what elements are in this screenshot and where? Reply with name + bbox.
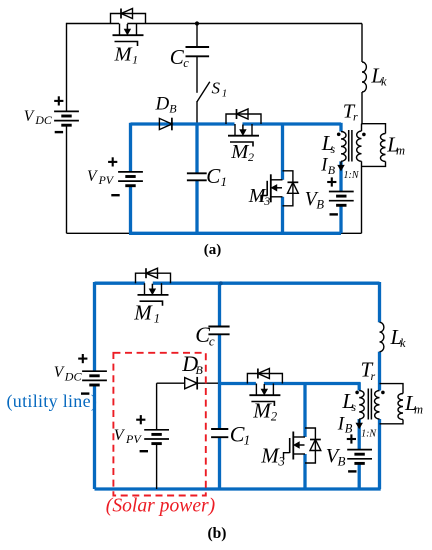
svg-text:1:N: 1:N <box>344 170 360 181</box>
svg-text:1: 1 <box>132 53 138 67</box>
svg-text:k: k <box>381 75 387 89</box>
svg-text:B: B <box>345 422 353 436</box>
svg-text:k: k <box>400 336 406 350</box>
svg-text:PV: PV <box>98 173 115 187</box>
svg-text:C: C <box>206 164 221 188</box>
svg-text:1: 1 <box>221 174 228 189</box>
svg-text:3: 3 <box>277 454 285 469</box>
svg-text:c: c <box>183 56 189 70</box>
svg-text:(Solar power): (Solar power) <box>106 496 215 517</box>
svg-text:B: B <box>196 363 204 377</box>
svg-text:1: 1 <box>154 312 160 326</box>
svg-text:2: 2 <box>248 150 254 164</box>
svg-text:m: m <box>414 402 423 416</box>
svg-text:M: M <box>114 43 134 65</box>
svg-text:M: M <box>260 444 280 468</box>
svg-text:(a): (a) <box>204 242 222 258</box>
svg-text:PV: PV <box>125 432 142 446</box>
svg-text:s: s <box>351 400 356 414</box>
svg-text:1: 1 <box>244 433 251 448</box>
svg-text:2: 2 <box>271 410 277 424</box>
svg-text:(utility line): (utility line) <box>7 391 98 412</box>
svg-text:(b): (b) <box>208 525 227 542</box>
svg-text:M: M <box>252 399 272 423</box>
svg-text:3: 3 <box>263 194 270 208</box>
svg-text:m: m <box>396 144 405 158</box>
svg-text:C: C <box>230 421 245 446</box>
svg-text:r: r <box>371 369 376 383</box>
svg-text:S: S <box>212 79 221 98</box>
svg-text:DC: DC <box>64 369 83 383</box>
svg-text:r: r <box>353 110 358 124</box>
svg-text:M: M <box>133 301 153 325</box>
svg-text:1:N: 1:N <box>361 429 377 440</box>
svg-text:D: D <box>155 94 170 115</box>
svg-text:DC: DC <box>34 113 52 127</box>
svg-text:B: B <box>328 163 336 177</box>
svg-text:V: V <box>24 108 35 125</box>
svg-text:B: B <box>338 453 346 468</box>
svg-text:c: c <box>209 333 215 348</box>
svg-text:B: B <box>316 197 324 211</box>
svg-text:V: V <box>54 364 65 381</box>
svg-text:1: 1 <box>222 88 228 100</box>
svg-text:s: s <box>331 142 336 156</box>
svg-text:B: B <box>169 102 177 116</box>
svg-text:V: V <box>87 168 98 185</box>
